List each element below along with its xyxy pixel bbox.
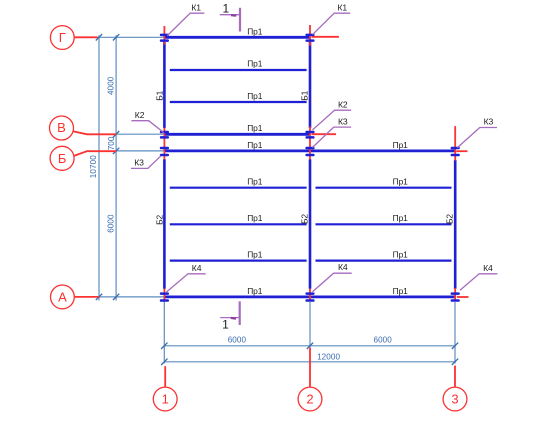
svg-text:4000: 4000 — [107, 76, 116, 95]
leader К3 column 3/Б — [457, 128, 497, 148]
leader К4 column 2/А — [313, 273, 352, 292]
section mark 1 bottom: arrow tick — [231, 317, 236, 320]
column K1 flanges at 1/Г — [160, 34, 169, 37]
axis mark column 3/Б — [454, 126, 456, 161]
svg-text:К3: К3 — [484, 117, 494, 127]
purlin Пр1 span1-2 y102 — [170, 101, 307, 103]
svg-text:6000: 6000 — [228, 335, 247, 344]
svg-text:К2: К2 — [135, 110, 145, 120]
svg-text:700: 700 — [107, 136, 116, 150]
svg-text:Пр1: Пр1 — [247, 286, 262, 296]
extension line axis Г — [97, 36, 164, 38]
extension line column 3 — [454, 302, 456, 364]
svg-text:Пр1: Пр1 — [393, 177, 408, 187]
extension line axis А — [99, 296, 164, 298]
column K1 flanges at 2/Г — [305, 34, 314, 37]
svg-text:Пр1: Пр1 — [247, 59, 262, 69]
svg-text:К2: К2 — [338, 100, 348, 110]
girder Пр1 axis В — [164, 133, 310, 136]
svg-text:К4: К4 — [192, 263, 202, 273]
svg-text:Пр1: Пр1 — [247, 91, 262, 101]
axis mark column 3/А — [454, 288, 456, 301]
svg-text:Пр1: Пр1 — [393, 249, 408, 259]
axis leader В — [73, 131, 116, 134]
leader К3 column 2/Б — [312, 127, 351, 147]
svg-text:3: 3 — [451, 392, 458, 407]
svg-text:Пр1: Пр1 — [247, 123, 262, 133]
leader К3 column 1/Б — [131, 156, 161, 169]
svg-text:12000: 12000 — [317, 352, 340, 361]
svg-text:В: В — [57, 120, 66, 135]
extension line column 1 — [163, 301, 165, 364]
purlin Пр1 span1-2 y222.5 — [170, 223, 307, 225]
svg-text:6000: 6000 — [373, 335, 392, 344]
axis circle 3 — [443, 387, 467, 411]
beam Б2 on axis 3 (column line 3) — [454, 160, 457, 289]
extension line axis Б — [116, 150, 163, 152]
svg-text:1: 1 — [223, 1, 230, 15]
axis mark stub right of column 2/В — [312, 133, 337, 135]
leader К2 column 2/В — [312, 110, 351, 130]
svg-text:Пр1: Пр1 — [247, 177, 262, 187]
axis circle 2 — [298, 387, 322, 411]
dim tick col2 line 6000 — [307, 343, 313, 349]
leader К2 column 1/В — [131, 121, 163, 133]
dimension line vertical 4000/700/6000 — [115, 35, 117, 300]
svg-text:Б1: Б1 — [155, 90, 165, 100]
axis circle Б — [50, 146, 74, 170]
dim tick col1 line 12000 — [161, 359, 167, 365]
svg-text:6000: 6000 — [107, 214, 116, 233]
purlin Пр1 span1-2 y187 — [170, 187, 307, 189]
axis mark column 2/А — [309, 289, 311, 301]
svg-text:Б: Б — [58, 151, 67, 166]
svg-text:2: 2 — [306, 392, 313, 407]
purlin Пр1 span1-2 y256.5 — [170, 260, 307, 262]
axis mark column 2/В-Б — [309, 127, 311, 160]
axis circle Г — [50, 26, 74, 50]
axis circle А — [51, 285, 75, 309]
dim tick col3 line 6000 — [452, 343, 458, 349]
axis mark column 1/Г — [163, 26, 165, 45]
svg-text:Пр1: Пр1 — [393, 286, 408, 296]
svg-text:Пр1: Пр1 — [393, 213, 408, 223]
svg-text:К1: К1 — [338, 3, 348, 13]
axis leader А — [75, 296, 100, 298]
purlin Пр1 span2-3 y222.5 — [316, 223, 452, 225]
section mark 1 top: arm — [220, 14, 239, 16]
dim tick col3 line 12000 — [452, 359, 458, 365]
svg-text:1: 1 — [222, 317, 229, 331]
axis leader 1 — [164, 366, 166, 387]
beam Б1/Б2 on axis 1 (column line 1) — [163, 42, 166, 289]
purlin Пр1 span2-3 y256.5 — [316, 260, 452, 262]
column K4 flanges at 1/А — [160, 292, 169, 295]
axis leader Б — [74, 151, 116, 156]
column K2 flanges at 1/В — [160, 131, 169, 134]
column K3 flanges at 1/Б — [160, 147, 169, 150]
svg-text:К4: К4 — [338, 262, 348, 272]
purlin Пр1 span1-2 y70 — [170, 69, 307, 71]
column K2 flanges at 2/В — [305, 131, 314, 134]
axis mark stub right of column 3/А — [457, 296, 469, 298]
dim tick В line2 — [113, 131, 119, 137]
svg-text:А: А — [58, 289, 67, 304]
beam Б1/Б2 on axis 2 (column line 2) — [309, 42, 312, 289]
svg-text:1: 1 — [162, 392, 169, 407]
axis circle В — [50, 116, 74, 140]
dim tick А line1 — [96, 294, 102, 300]
svg-text:Б2: Б2 — [444, 214, 454, 224]
girder Пр1 axis Г — [164, 36, 310, 39]
svg-text:К4: К4 — [483, 263, 493, 273]
dim tick col1 line 6000 — [161, 343, 167, 349]
axis leader Г — [74, 36, 97, 38]
leader К4 column 1/А — [166, 274, 206, 292]
dimension line 12000 — [164, 361, 455, 363]
svg-text:10700: 10700 — [89, 155, 98, 178]
section mark 1 bottom: arm — [220, 317, 240, 319]
svg-text:К1: К1 — [191, 3, 201, 13]
svg-text:Б1: Б1 — [299, 90, 309, 100]
svg-text:К3: К3 — [134, 158, 144, 168]
axis leader 2 — [309, 348, 311, 387]
axis mark stub right of column 3/Б — [456, 150, 467, 152]
svg-text:Пр1: Пр1 — [247, 213, 262, 223]
column K3 flanges at 2/Б — [305, 147, 314, 150]
svg-text:Б2: Б2 — [154, 214, 164, 224]
section mark 1 top: blade — [239, 8, 241, 32]
dim tick Г line1 — [96, 34, 102, 40]
dim tick А line2 — [113, 294, 119, 300]
svg-text:К3: К3 — [338, 117, 348, 127]
axis mark column 1/В-Б — [163, 128, 165, 160]
extension line column 2 — [309, 302, 311, 347]
axis mark column 2/Г — [309, 25, 311, 46]
svg-text:Пр1: Пр1 — [247, 26, 262, 36]
axis leader 3 — [454, 366, 456, 387]
section mark 1 top: arrow tick — [231, 14, 236, 17]
svg-text:Б2: Б2 — [299, 214, 309, 224]
svg-text:Г: Г — [59, 30, 66, 45]
girder Пр1 axis Б — [164, 149, 455, 152]
axis mark stub right of column 2/Г — [312, 36, 339, 38]
axis circle 1 — [153, 387, 177, 411]
column K3 flanges at 3/Б — [451, 147, 460, 150]
svg-text:Пр1: Пр1 — [247, 140, 262, 150]
leader К1 column 1/Г — [167, 13, 204, 35]
column K4 flanges at 3/А — [451, 292, 460, 295]
svg-text:Пр1: Пр1 — [247, 249, 262, 259]
leader К4 column 3/А — [460, 274, 497, 291]
extension line axis В — [116, 133, 163, 135]
dim tick Г line2 — [113, 34, 119, 40]
svg-text:Пр1: Пр1 — [393, 140, 408, 150]
leader К1 column 2/Г — [313, 13, 351, 34]
axis mark column 1/А — [163, 289, 165, 301]
girder Пр1 axis А — [164, 295, 455, 298]
purlin Пр1 span2-3 y187 — [316, 187, 452, 189]
section mark 1 bottom: blade — [239, 301, 241, 325]
column K4 flanges at 2/А — [305, 292, 314, 295]
dimension line 6000+6000 — [164, 345, 455, 347]
dimension line vertical 10700 — [98, 35, 100, 300]
dim tick Б line2 — [113, 148, 119, 154]
